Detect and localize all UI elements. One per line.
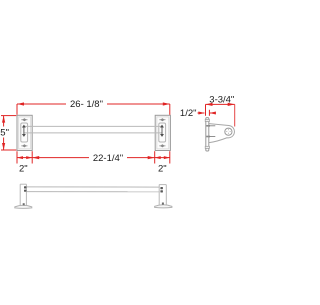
svg-text:5": 5" — [0, 127, 9, 138]
svg-text:26- 1/8": 26- 1/8" — [70, 99, 103, 110]
svg-text:2": 2" — [19, 164, 28, 175]
svg-text:22-1/4": 22-1/4" — [93, 153, 123, 164]
svg-text:1/2": 1/2" — [180, 108, 197, 119]
svg-text:3-3/4": 3-3/4" — [209, 94, 234, 105]
svg-text:2": 2" — [158, 164, 167, 175]
